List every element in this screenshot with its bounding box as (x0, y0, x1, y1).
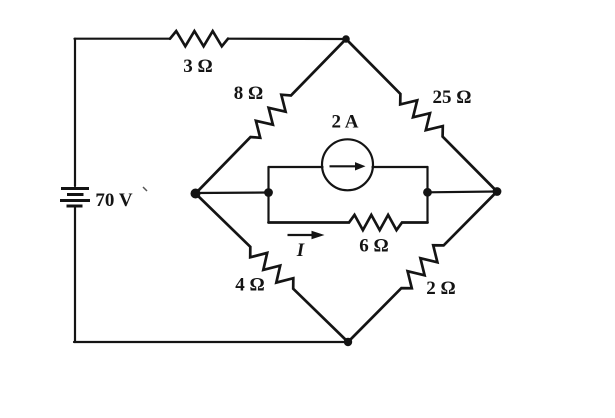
battery V1 70V plates (60, 189, 90, 207)
resistor 6 ohm on bridge bottom edge (269, 215, 428, 230)
node left (191, 189, 201, 199)
wire top horizontal left segment (75, 38, 171, 40)
svg-text:4 Ω: 4 Ω (235, 275, 264, 296)
resistor 4 ohm (196, 194, 349, 343)
wire middle right (428, 190, 498, 193)
stray tick mark near 70 V (143, 187, 147, 191)
svg-text:6 Ω: 6 Ω (359, 236, 388, 257)
current I arrow (288, 231, 325, 239)
wire left vertical bottom (battery bottom to corner) (74, 207, 76, 343)
svg-text:I: I (296, 240, 305, 261)
svg-text:2 Ω: 2 Ω (426, 278, 455, 299)
svg-text:8 Ω: 8 Ω (234, 83, 263, 104)
wire bottom horizontal (74, 341, 348, 343)
svg-text:3 Ω: 3 Ω (183, 56, 212, 77)
node bridge left (264, 188, 273, 197)
resistor 25 ohm (346, 39, 497, 192)
wire left vertical top (top wire to battery top plate) (74, 39, 76, 186)
svg-text:70 V: 70 V (95, 190, 132, 211)
resistor 3 ohm (170, 31, 228, 46)
node top (342, 35, 350, 43)
resistor 8 ohm (196, 39, 347, 194)
current source U1 circle (322, 139, 373, 190)
wire bridge left edge (267, 167, 269, 223)
node right (493, 187, 502, 196)
node bridge right (423, 188, 432, 197)
wire bridge top edge right (373, 166, 428, 168)
svg-text:2 A: 2 A (332, 112, 359, 133)
svg-text:25 Ω: 25 Ω (433, 87, 472, 108)
wire top horizontal right segment (228, 38, 346, 40)
wire bridge top edge left (269, 166, 323, 168)
current source arrow (330, 162, 366, 170)
wire middle left (196, 191, 269, 194)
node bottom (344, 338, 352, 346)
wire bridge right edge (426, 167, 428, 223)
resistor 2 ohm (348, 192, 497, 343)
